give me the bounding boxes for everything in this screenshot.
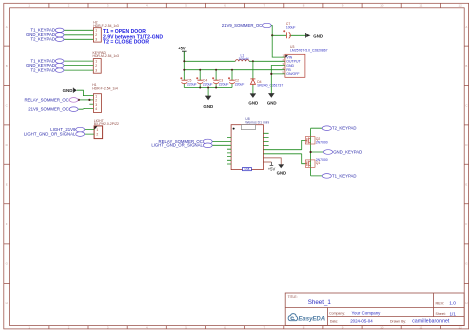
svg-text:REV:: REV: (436, 301, 445, 305)
svg-text:D: D (6, 143, 8, 147)
svg-text:Company:: Company: (329, 311, 345, 315)
svg-text:Your Company: Your Company (352, 310, 382, 315)
svg-text:Wemos D1 mini: Wemos D1 mini (245, 121, 269, 125)
svg-text:Sheet:: Sheet: (436, 312, 446, 316)
svg-text:100uF: 100uF (286, 26, 296, 30)
svg-text:10: 10 (380, 4, 384, 8)
svg-text:C: C (465, 103, 467, 107)
svg-text:B: B (465, 64, 467, 68)
svg-text:1: 1 (96, 128, 98, 132)
svg-text:11: 11 (419, 4, 422, 8)
svg-text:3: 3 (95, 68, 97, 72)
svg-text:GND: GND (277, 170, 287, 175)
svg-text:LIGHT_GND_OR_SIGNAL: LIGHT_GND_OR_SIGNAL (151, 143, 203, 148)
svg-text:E: E (6, 182, 8, 186)
svg-text:Drawn By:: Drawn By: (390, 320, 406, 324)
svg-text:Sheet_1: Sheet_1 (308, 299, 332, 306)
svg-text:1/1: 1/1 (450, 312, 457, 317)
svg-text:T2_KEYPAD: T2_KEYPAD (30, 37, 55, 42)
svg-text:1: 1 (95, 59, 97, 63)
svg-text:2: 2 (96, 133, 98, 137)
svg-text:2N7000: 2N7000 (316, 140, 328, 144)
svg-text:Date:: Date: (330, 320, 338, 324)
svg-text:LM2576T-5.0_C2820867: LM2576T-5.0_C2820867 (290, 49, 328, 53)
svg-text:+5V: +5V (178, 46, 186, 51)
svg-text:2024-05-04: 2024-05-04 (350, 319, 373, 324)
svg-text:RELAY_SOMMER_OC: RELAY_SOMMER_OC (24, 97, 68, 102)
svg-text:100uH: 100uH (239, 57, 250, 61)
svg-text:F: F (6, 222, 8, 226)
svg-text:H: H (6, 301, 8, 305)
svg-text:GND: GND (248, 101, 258, 106)
svg-text:Q1: Q1 (316, 161, 321, 165)
svg-text:GND: GND (313, 33, 323, 38)
svg-text:A: A (465, 25, 467, 29)
svg-text:GND: GND (203, 104, 213, 109)
svg-text:F: F (466, 222, 468, 226)
svg-text:LIGHT_GND_OR_SIGNAL: LIGHT_GND_OR_SIGNAL (24, 132, 76, 137)
svg-text:4: 4 (95, 107, 97, 111)
svg-text:T2 = CLOSE DOOR: T2 = CLOSE DOOR (103, 39, 149, 45)
svg-text:HDR-F-2.54_1x3: HDR-F-2.54_1x3 (93, 24, 119, 28)
svg-text:2: 2 (95, 33, 97, 37)
svg-text:A: A (6, 25, 8, 29)
svg-text:220uF: 220uF (235, 82, 245, 86)
svg-text:HDR-M-2.54_1x3: HDR-M-2.54_1x3 (93, 54, 119, 58)
svg-text:B: B (6, 64, 8, 68)
svg-text:camillebaronnet: camillebaronnet (412, 319, 450, 325)
svg-text:D: D (465, 143, 467, 147)
svg-text:3: 3 (95, 38, 97, 42)
svg-text:GND_KEYPAD: GND_KEYPAD (333, 149, 362, 154)
svg-text:1: 1 (95, 29, 97, 33)
svg-text:GND: GND (63, 88, 73, 93)
svg-text:HDR-F-2.54_1x4: HDR-F-2.54_1x4 (92, 87, 118, 91)
svg-text:1.0: 1.0 (449, 301, 456, 307)
svg-text:T1_KEYPAD: T1_KEYPAD (332, 173, 357, 178)
svg-text:TITLE:: TITLE: (288, 295, 298, 299)
svg-text:220uF: 220uF (219, 82, 229, 86)
svg-text:ON/OFF: ON/OFF (286, 72, 299, 76)
svg-text:12: 12 (458, 4, 462, 8)
svg-text:220uF: 220uF (203, 82, 213, 86)
svg-text:EasyEDA: EasyEDA (298, 316, 325, 322)
svg-text:T2_KEYPAD: T2_KEYPAD (332, 126, 357, 131)
svg-text:21V9_SOMMER_OC: 21V9_SOMMER_OC (222, 23, 263, 28)
svg-text:E: E (465, 182, 467, 186)
svg-text:21V9_SOMMER_OC: 21V9_SOMMER_OC (28, 107, 69, 112)
svg-text:T2_KEYPAD: T2_KEYPAD (30, 68, 55, 73)
svg-text:220uF: 220uF (187, 82, 197, 86)
svg-text:GND: GND (267, 101, 277, 106)
svg-text:H: H (465, 301, 467, 305)
svg-text:+5V: +5V (268, 167, 276, 172)
svg-text:C: C (6, 103, 8, 107)
svg-text:2: 2 (95, 64, 97, 68)
svg-text:SR240_C351737: SR240_C351737 (257, 84, 283, 88)
svg-text:USB: USB (244, 168, 249, 171)
